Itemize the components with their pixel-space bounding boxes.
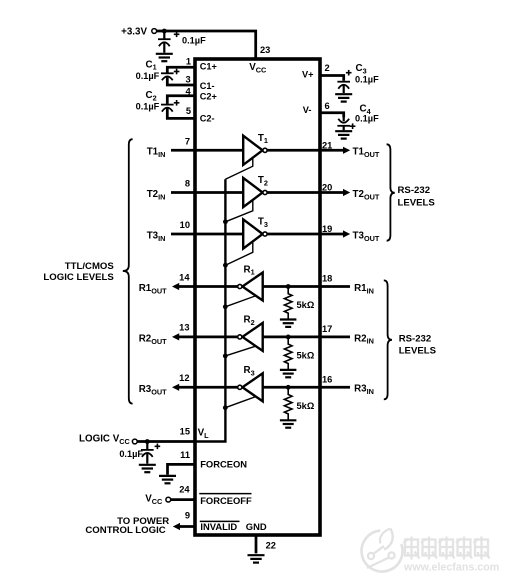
svg-text:5: 5 xyxy=(186,106,191,116)
ground (VL bypass) xyxy=(139,465,156,472)
IC U1 (RS-232 transceiver) outline xyxy=(195,59,320,535)
overline INVALID xyxy=(200,520,240,522)
svg-text:LOGIC LEVELS: LOGIC LEVELS xyxy=(43,272,114,283)
transmitter T3 inverter bubble xyxy=(263,232,267,236)
svg-text:5kΩ: 5kΩ xyxy=(297,351,315,361)
svg-text:0.1µF: 0.1µF xyxy=(136,71,160,81)
plus sign (VL bypass cap) xyxy=(155,444,161,450)
terminal circle (VCC) xyxy=(166,497,171,502)
receiver R3 enable slash xyxy=(225,396,258,408)
svg-text:22: 22 xyxy=(266,541,276,551)
terminal circle (LOGIC VCC terminal) xyxy=(132,439,137,444)
receiver R1 inverter bubble xyxy=(238,284,242,288)
wire R3OUT pin 12 xyxy=(179,386,238,389)
svg-text:www.elecfans.com: www.elecfans.com xyxy=(403,562,499,574)
plus sign (C1) xyxy=(174,69,180,75)
ground (below R2) xyxy=(280,370,297,377)
svg-text:GND: GND xyxy=(246,521,267,532)
transmitter T2 enable stub xyxy=(225,199,252,222)
junction dot (R2 enable junction) xyxy=(223,354,228,359)
svg-text:RS-232: RS-232 xyxy=(399,334,432,345)
watermark chinese text xyxy=(404,537,490,560)
junction dot (R2 5k tap) xyxy=(286,335,291,340)
svg-text:21: 21 xyxy=(322,140,332,150)
svg-text:17: 17 xyxy=(322,324,332,334)
svg-text:LEVELS: LEVELS xyxy=(398,197,436,208)
arrowhead (T1OUT) xyxy=(343,147,350,154)
svg-text:10: 10 xyxy=(180,220,190,230)
svg-text:7: 7 xyxy=(185,136,190,146)
svg-text:0.1µF: 0.1µF xyxy=(182,36,206,46)
svg-text:24: 24 xyxy=(179,484,190,494)
wire VCC to pin 24 FORCEOFF xyxy=(171,498,195,501)
plus sign (C2) xyxy=(174,100,180,106)
svg-text:0.1µF: 0.1µF xyxy=(119,449,143,459)
svg-text:14: 14 xyxy=(179,272,190,282)
svg-text:FORCEOFF: FORCEOFF xyxy=(200,495,252,506)
svg-text:19: 19 xyxy=(322,224,332,234)
svg-text:RS-232: RS-232 xyxy=(398,185,431,196)
watermark logo circle xyxy=(362,529,403,572)
capacitor C2 0.1uF plates xyxy=(161,105,174,112)
svg-text:13: 13 xyxy=(179,323,189,333)
svg-text:18: 18 xyxy=(322,274,332,284)
capacitor C1 0.1uF plates xyxy=(161,73,174,80)
ground (VCC bypass) xyxy=(156,54,173,61)
svg-text:8: 8 xyxy=(185,179,190,189)
arrowhead (R3OUT) xyxy=(172,384,179,391)
wire pin 3 C1- xyxy=(167,77,195,85)
receiver R2 inverter bubble xyxy=(238,335,242,339)
receiver R1 enable slash xyxy=(225,295,258,307)
svg-text:C1-: C1- xyxy=(200,81,215,91)
transmitter T2 inverter bubble xyxy=(263,190,267,194)
transmitter T1 inverter bubble xyxy=(263,148,267,152)
svg-text:C2-: C2- xyxy=(200,114,215,124)
wire T2IN pin 8 xyxy=(171,191,243,194)
svg-text:6: 6 xyxy=(325,101,330,111)
receiver R2 buffer xyxy=(242,323,262,351)
wire LOGIC VCC to pin 15 VL xyxy=(137,440,195,443)
svg-text:0.1µF: 0.1µF xyxy=(355,114,379,124)
junction dot (T2 enable junction) xyxy=(223,219,228,224)
wire enable bus from VL xyxy=(195,179,225,441)
svg-text:16: 16 xyxy=(322,374,332,384)
ground (FORCEON) xyxy=(159,476,176,483)
brace RS-232 levels (receivers) xyxy=(384,280,392,399)
junction dot (R1 5k tap) xyxy=(286,284,291,289)
ground (C3) xyxy=(335,94,352,101)
svg-text:5kΩ: 5kΩ xyxy=(297,300,315,310)
transmitter T1 buffer xyxy=(243,136,262,165)
brace TTL/CMOS logic levels xyxy=(123,139,133,403)
junction dot (R3 5k tap) xyxy=(286,385,291,390)
wire R2IN pin 17 xyxy=(263,336,350,339)
svg-text:V-: V- xyxy=(303,105,312,115)
svg-text:20: 20 xyxy=(322,183,332,193)
capacitor C_VL 0.1uF plates xyxy=(141,450,154,457)
plus sign (C4) xyxy=(350,123,356,129)
svg-text:12: 12 xyxy=(179,373,189,383)
wire T1IN pin 7 xyxy=(171,149,243,152)
plus sign (VCC bypass cap) xyxy=(174,32,180,38)
svg-text:LEVELS: LEVELS xyxy=(399,346,437,357)
wire T2OUT pin 20 xyxy=(267,191,343,194)
arrowhead (R1OUT) xyxy=(172,283,179,290)
wire C3 lower stem xyxy=(343,85,345,93)
terminal circle (+3.3V terminal) xyxy=(152,29,157,34)
overline FORCEOFF xyxy=(199,493,251,495)
receiver R2 enable slash xyxy=(225,345,258,356)
ground (C4) xyxy=(335,131,352,138)
wire R1IN pin 18 xyxy=(263,285,350,288)
wire pin 1 C1+ xyxy=(167,67,195,72)
svg-text:5kΩ: 5kΩ xyxy=(297,401,315,411)
svg-text:CONTROL LOGIC: CONTROL LOGIC xyxy=(85,525,165,536)
wire pin 11 FORCEON to ground xyxy=(168,464,196,474)
capacitor C_bypass 0.1uF plates xyxy=(158,39,171,46)
wire bypass cap stem xyxy=(163,31,165,53)
wire T3IN pin 10 xyxy=(171,233,243,236)
transmitter T2 buffer xyxy=(243,178,262,207)
svg-text:0.1µF: 0.1µF xyxy=(355,74,379,84)
wire pin 6 V- xyxy=(320,113,344,118)
ground (GND pin 22) xyxy=(248,555,265,562)
svg-text:3: 3 xyxy=(186,74,191,84)
wire pin 22 GND xyxy=(255,535,258,553)
junction dot (R1 enable junction) xyxy=(223,304,228,309)
wire C4 stems xyxy=(343,117,345,130)
arrowhead (T3OUT) xyxy=(343,230,350,237)
capacitor C3 0.1uF plates xyxy=(337,82,350,89)
transmitter T3 buffer xyxy=(243,219,262,248)
receiver R3 inverter bubble xyxy=(238,385,242,389)
wire pin 9 INVALID xyxy=(180,525,196,528)
svg-text:C1+: C1+ xyxy=(200,61,217,71)
wire from +3.3V to pin 23 VCC xyxy=(157,31,256,58)
brace RS-232 levels (transmitters) xyxy=(387,144,395,240)
wire T1OUT pin 21 xyxy=(267,149,343,152)
wire R2OUT pin 13 xyxy=(179,336,238,339)
svg-text:INVALID: INVALID xyxy=(200,521,237,532)
svg-text:11: 11 xyxy=(180,450,190,460)
svg-text:+3.3V: +3.3V xyxy=(121,26,147,37)
junction dot (bypass cap tap) xyxy=(162,29,167,34)
wire R3IN pin 16 xyxy=(263,386,350,389)
ground (below R3) xyxy=(280,420,297,427)
svg-text:9: 9 xyxy=(185,511,190,521)
resistor R1 5k ohm xyxy=(284,287,292,320)
resistor R2 5k ohm xyxy=(284,337,292,370)
svg-text:15: 15 xyxy=(180,426,190,436)
junction dot (R3 enable junction) xyxy=(223,405,228,410)
transmitter T3 enable stub xyxy=(225,240,252,265)
plus sign (C3) xyxy=(346,70,352,76)
receiver R1 buffer xyxy=(242,273,262,301)
arrowhead (T2OUT) xyxy=(343,189,350,196)
wire pin 2 V+ xyxy=(320,76,344,81)
arrowhead (INVALID out) xyxy=(173,523,180,530)
svg-text:4: 4 xyxy=(186,86,192,96)
svg-text:V+: V+ xyxy=(302,69,314,79)
capacitor C4 0.1uF plates xyxy=(337,119,350,126)
resistor R3 5k ohm xyxy=(284,387,292,420)
wire pin 5 C2- xyxy=(167,109,195,119)
svg-text:23: 23 xyxy=(260,45,270,55)
svg-text:FORCEON: FORCEON xyxy=(200,459,247,470)
wire T3OUT pin 19 xyxy=(267,233,343,236)
ground (below R1) xyxy=(280,320,297,327)
receiver R3 buffer xyxy=(242,373,262,401)
wire pin 4 C2+ xyxy=(167,96,195,104)
svg-text:TTL/CMOS: TTL/CMOS xyxy=(65,261,115,272)
junction dot (VL bypass tap) xyxy=(145,439,150,444)
wire R1OUT pin 14 xyxy=(179,285,238,288)
wire VL bypass cap stem xyxy=(146,442,148,464)
svg-text:1: 1 xyxy=(186,56,191,66)
transmitter T1 enable stub xyxy=(225,157,252,180)
junction dot (T3 enable junction) xyxy=(223,263,228,268)
arrowhead (R2OUT) xyxy=(172,333,179,340)
svg-text:0.1µF: 0.1µF xyxy=(136,101,160,111)
svg-text:C2+: C2+ xyxy=(200,91,217,101)
svg-text:2: 2 xyxy=(325,63,330,73)
